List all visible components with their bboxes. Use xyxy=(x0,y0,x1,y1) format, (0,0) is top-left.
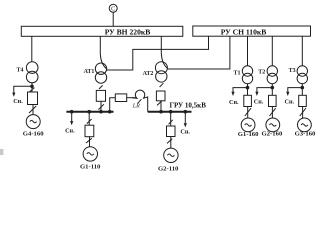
wire riser to section chain xyxy=(110,98,116,112)
wire GRU to G1-110 xyxy=(88,112,90,126)
generator G2-110 xyxy=(158,148,179,172)
svg-text:Т4: Т4 xyxy=(16,68,23,74)
svg-text:Т2: Т2 xyxy=(258,70,265,76)
svg-text:G1-160: G1-160 xyxy=(238,131,259,138)
wire 220kV bus to AT2 (curved lead) xyxy=(161,36,167,68)
node G1-110 branch xyxy=(87,110,91,114)
breaker T1 xyxy=(244,95,252,106)
generator G2-160 xyxy=(261,118,282,138)
wire C to 220kV bus xyxy=(112,12,114,26)
disconnector T3 xyxy=(300,108,306,116)
arrow Сн T4 xyxy=(12,93,15,97)
svg-text:LR: LR xyxy=(132,104,140,110)
bus РУ СН 110кВ xyxy=(193,26,311,36)
breaker section LR xyxy=(115,94,126,102)
autotransformer AT2 xyxy=(143,62,168,82)
wire aux tap T4 xyxy=(14,86,32,93)
transformer T2 xyxy=(258,66,277,84)
wire aux tap T3 xyxy=(288,88,303,93)
generator G4-160 xyxy=(23,115,44,138)
disconnector G1-110 lower xyxy=(86,138,92,143)
disconnector G1-110 upper xyxy=(87,119,92,124)
svg-text:G2-110: G2-110 xyxy=(158,165,179,172)
wire AT2 medium-voltage link to 110kV bus xyxy=(167,36,230,69)
wire AT2 to GRU bus xyxy=(160,101,162,112)
svg-text:РУ ВН 220кВ: РУ ВН 220кВ xyxy=(105,27,151,36)
arrow Сн T1 xyxy=(231,92,234,96)
wire aux tap GRU right xyxy=(184,112,186,124)
wire AT1 medium-voltage link to 110kV bus xyxy=(107,36,209,70)
node T1 branch xyxy=(246,86,250,90)
svg-text:Сн.: Сн. xyxy=(180,129,190,136)
arrow Сн GRU left xyxy=(70,121,73,125)
svg-text:Сн.: Сн. xyxy=(254,99,264,106)
svg-text:Т1: Т1 xyxy=(233,70,240,76)
svg-text:АТ1: АТ1 xyxy=(84,69,95,75)
node AT2 at GRU xyxy=(159,110,163,114)
wire 110kV bus to T2 xyxy=(271,36,273,66)
disconnector AT2 lower xyxy=(160,83,164,87)
wire AT1 to GRU bus xyxy=(100,101,102,111)
bus GRU 10.5kV left section xyxy=(66,111,113,113)
wire to G1-110 xyxy=(89,137,91,147)
disconnector G2-110 upper xyxy=(169,120,173,124)
node aux tap GRU left xyxy=(70,110,74,114)
bus GRU 10.5kV right section xyxy=(148,111,192,113)
svg-text:РУ СН 110кВ: РУ СН 110кВ xyxy=(221,27,267,36)
scan speck left edge lower xyxy=(0,149,3,155)
system C xyxy=(109,4,117,12)
breaker T2 xyxy=(269,95,277,106)
wire 110kV bus to T3 xyxy=(301,36,303,66)
wire breaker to reactor xyxy=(127,97,136,99)
wire T2 to node xyxy=(271,84,273,96)
disconnector below breaker G4 xyxy=(29,106,36,113)
wire 220kV bus to T4 xyxy=(31,36,33,62)
node G2-110 branch xyxy=(169,110,173,114)
node aux tap GRU right xyxy=(184,110,188,114)
svg-text:G4-160: G4-160 xyxy=(23,130,44,137)
wire 110kV bus to T1 xyxy=(247,36,249,66)
breaker AT2 xyxy=(156,91,165,101)
autotransformer AT1 xyxy=(84,63,107,83)
node T3 branch xyxy=(301,86,305,90)
wire aux tap T2 xyxy=(257,88,272,93)
arrow Сн T2 xyxy=(255,92,258,96)
node riser to section reactor xyxy=(108,110,112,114)
disconnector G2-110 lower xyxy=(167,139,172,144)
generator G1-160 xyxy=(238,118,259,138)
wire to G2-160 xyxy=(271,107,273,119)
transformer T1 xyxy=(233,66,252,84)
wire T3 to node xyxy=(301,84,303,96)
generator G1-110 xyxy=(80,147,101,171)
wire GRU to G2-110 xyxy=(170,112,172,126)
svg-text:G1-110: G1-110 xyxy=(80,163,101,170)
disconnector below breaker AT2 xyxy=(157,101,162,106)
node T4 branch xyxy=(30,85,34,89)
transformer T4 xyxy=(16,62,38,83)
svg-text:Сн.: Сн. xyxy=(13,98,23,105)
generator G3-160 xyxy=(295,118,316,138)
wire aux tap T1 xyxy=(233,88,248,93)
breaker G1-110 xyxy=(85,125,94,137)
disconnector AT1 lower xyxy=(99,85,103,89)
arrow Сн GRU right xyxy=(184,123,187,127)
disconnector below breaker AT1 xyxy=(98,104,104,109)
svg-text:Сн.: Сн. xyxy=(285,99,295,106)
svg-text:G2-160: G2-160 xyxy=(261,131,282,138)
wire 220kV bus to AT1 (curved lead) xyxy=(100,36,106,69)
breaker AT1 xyxy=(96,90,105,101)
bus РУ ВН 220кВ xyxy=(21,26,183,36)
transformer T3 xyxy=(289,66,308,84)
svg-text:Т3: Т3 xyxy=(289,68,296,74)
wire T1 to node xyxy=(247,84,249,96)
breaker G4 xyxy=(28,92,38,105)
node AT1 at GRU xyxy=(99,110,103,114)
svg-text:АТ2: АТ2 xyxy=(143,71,154,77)
wire to G2-110 xyxy=(170,137,172,149)
svg-text:Сн.: Сн. xyxy=(229,99,239,106)
disconnector T1 xyxy=(245,108,251,116)
node T2 branch xyxy=(271,86,275,90)
wire to G4 xyxy=(32,105,34,115)
arrow Сн T3 xyxy=(286,92,289,96)
disconnector above breaker T4 xyxy=(30,88,35,92)
wire aux tap GRU left xyxy=(71,112,73,122)
disconnector T2 xyxy=(270,108,276,116)
breaker T3 xyxy=(299,95,307,106)
breaker G2-110 xyxy=(167,126,176,137)
wire to G3-160 xyxy=(302,107,304,119)
wire to G1-160 xyxy=(247,107,249,119)
svg-text:Сн.: Сн. xyxy=(65,127,75,134)
reactor LR xyxy=(132,90,145,109)
svg-text:С: С xyxy=(111,6,115,13)
svg-text:G3-160: G3-160 xyxy=(295,131,316,138)
svg-text:ГРУ 10,5кВ: ГРУ 10,5кВ xyxy=(169,102,206,110)
wire T4 to node xyxy=(31,83,33,92)
wire reactor to GRU right section xyxy=(143,97,148,112)
